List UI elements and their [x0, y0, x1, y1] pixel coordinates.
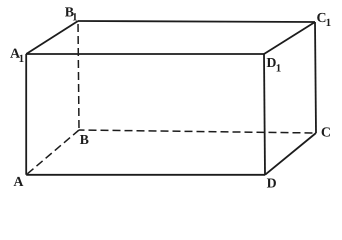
wire edge D-D1 (front right vertical) — [264, 54, 265, 175]
node label A1 — [10, 49, 23, 62]
wire edge A-A1 (front left vertical) — [25, 54, 27, 175]
wire edge B1-C1 (back top) — [78, 21, 315, 22]
wire edge D-C (bottom right slant) — [265, 133, 316, 175]
node label D1 — [267, 58, 281, 72]
node label C1 — [317, 13, 330, 26]
node label D — [267, 178, 276, 187]
node label B1 — [65, 7, 77, 20]
wire edge D1-C1 (top right slant) — [264, 22, 315, 54]
wire edge A1-B1 (top left slant) — [26, 21, 78, 54]
wire hidden edge B-B1 (dashed) — [78, 21, 79, 130]
node label C — [322, 127, 330, 136]
wire edge A1-D1 (front top) — [26, 53, 264, 55]
wire edge A-D (front bottom) — [26, 174, 265, 176]
wire hidden edge A-B (dashed) — [26, 130, 79, 175]
wire edge C1-C (back right vertical) — [315, 22, 316, 133]
wire hidden edge B-C (dashed) — [79, 130, 316, 133]
node label A — [14, 177, 24, 186]
node label B — [80, 135, 89, 144]
